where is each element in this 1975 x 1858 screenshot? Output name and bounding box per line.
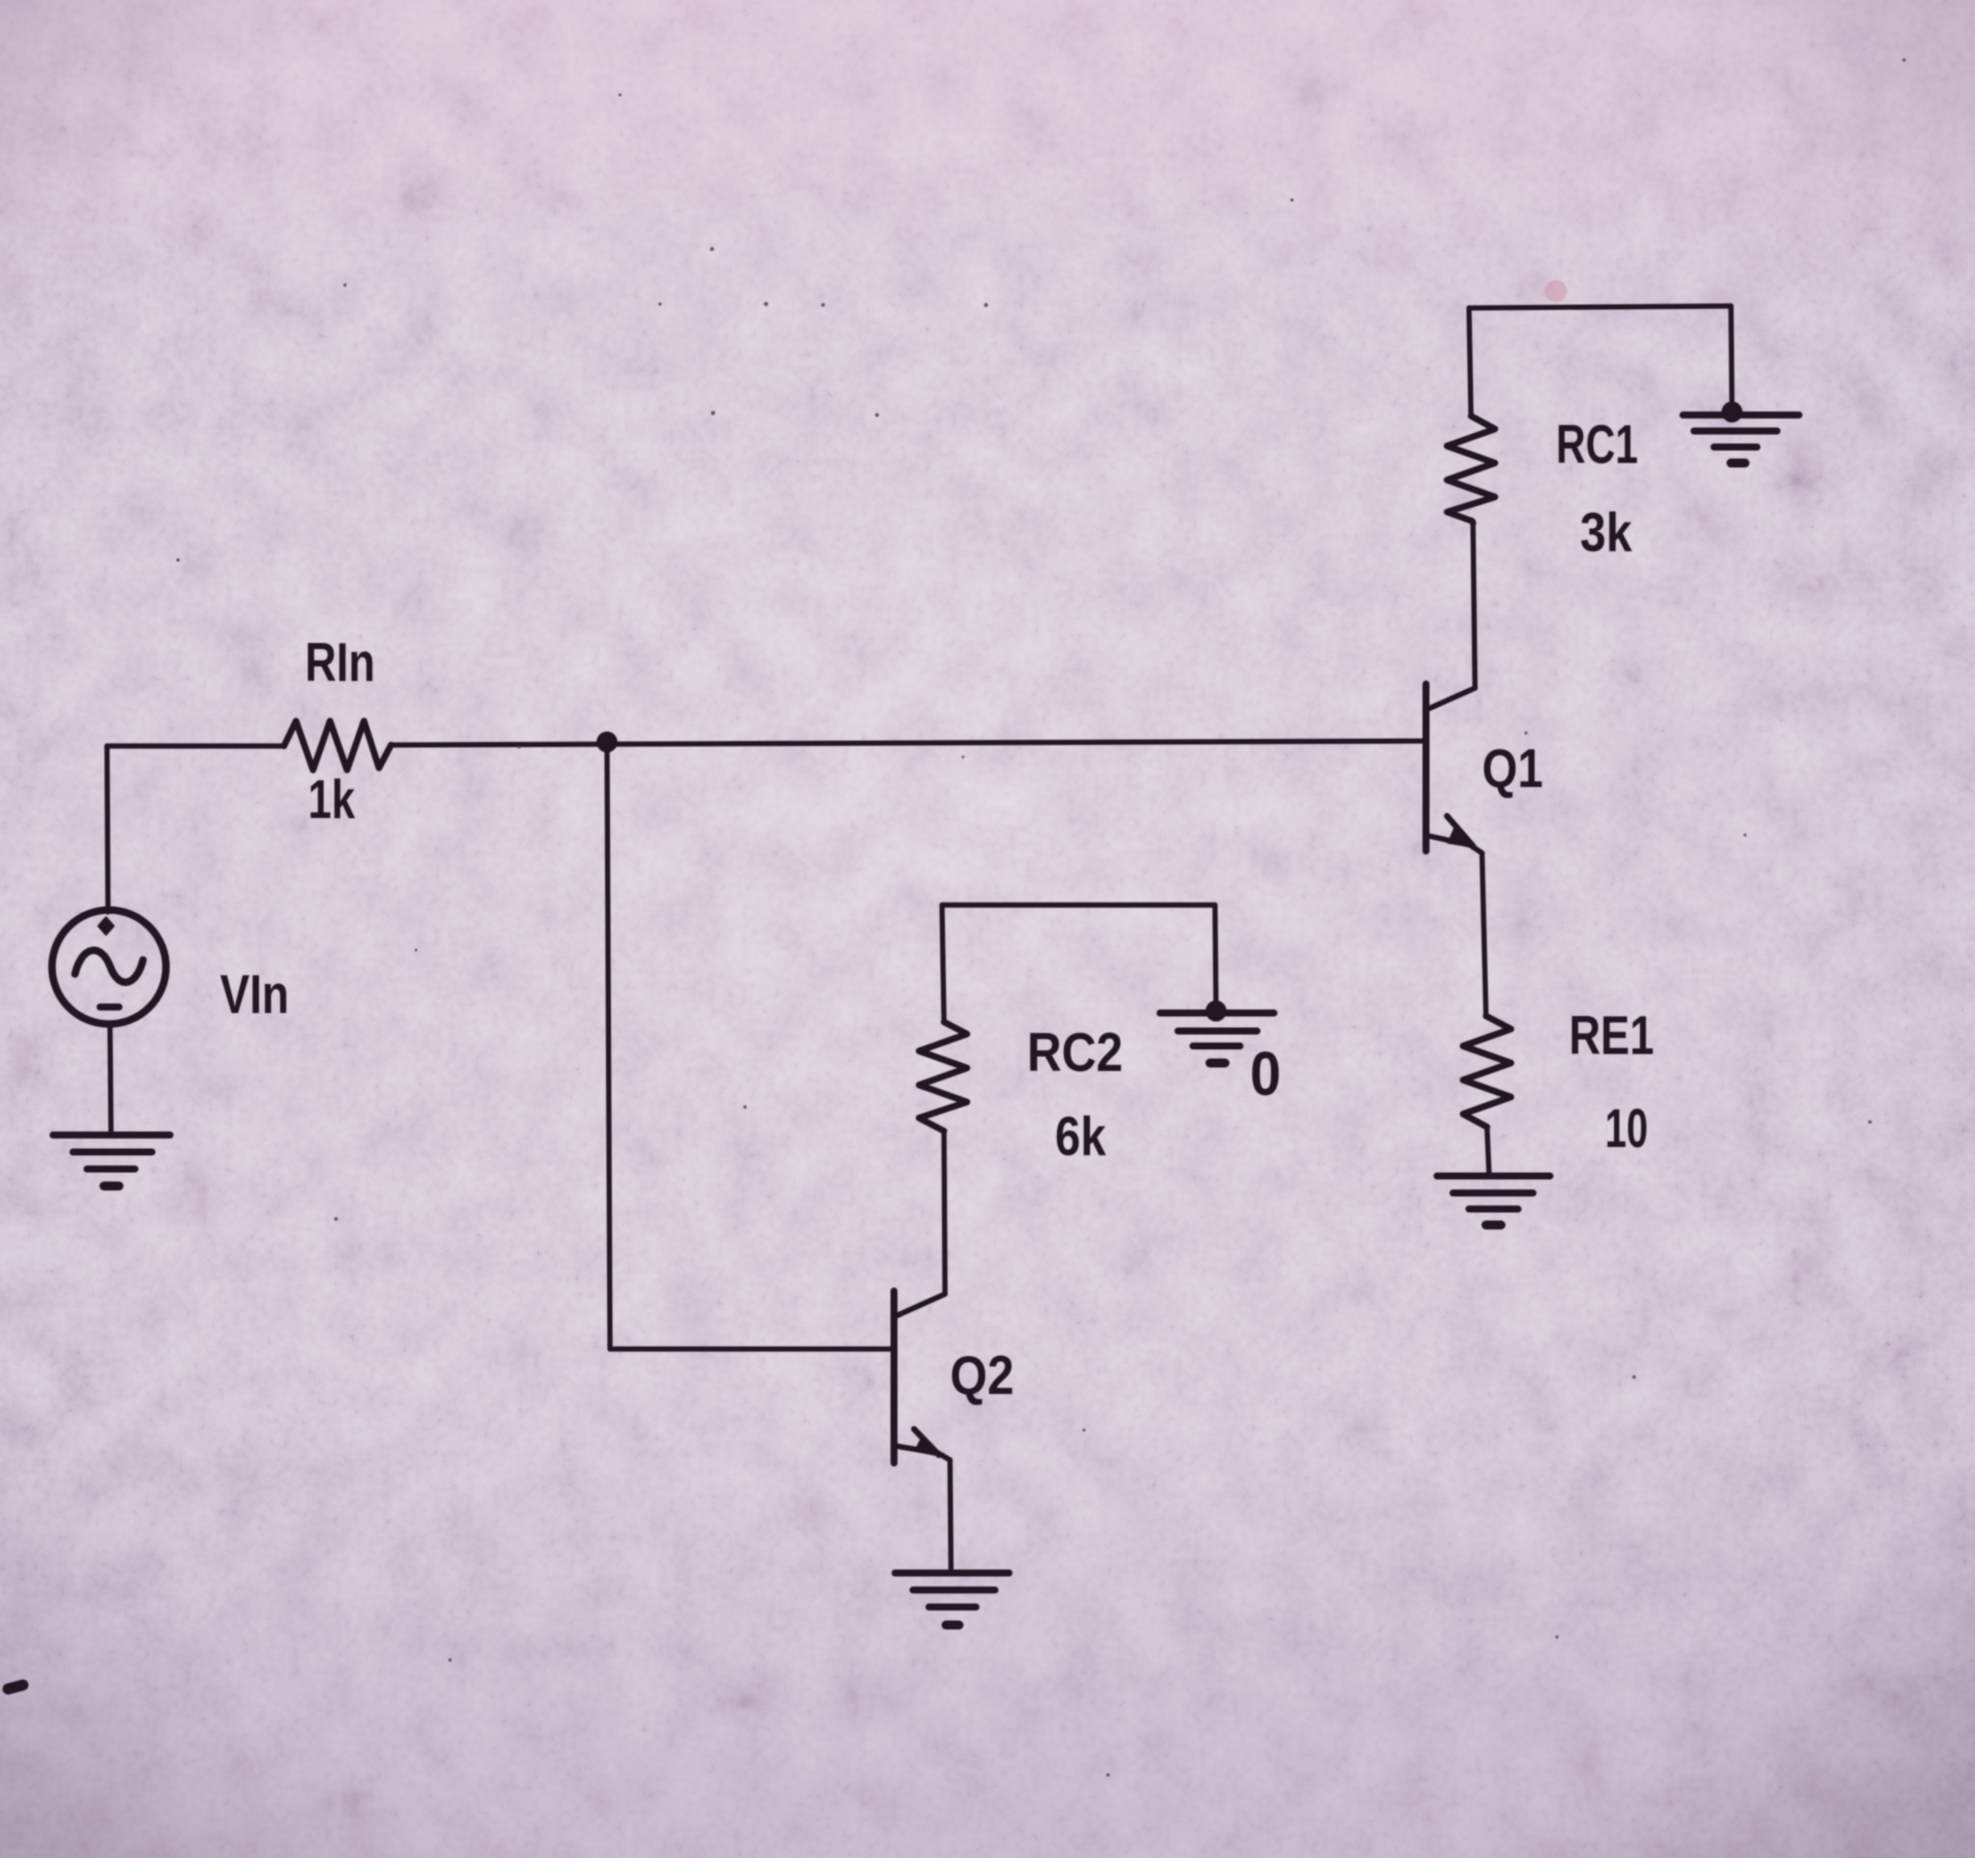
- wire: Vin top to main node: [107, 746, 108, 912]
- source Vin sine: [75, 950, 143, 982]
- resistor RIn: [284, 721, 391, 770]
- wire: main horizontal left segment: [107, 743, 284, 748]
- transistor Q2 emitter arrow: [914, 1429, 939, 1455]
- wire: Q1 emitter vertical: [1482, 853, 1486, 1016]
- resistor RE1: [1463, 1016, 1511, 1127]
- source Vin circle: [52, 910, 166, 1024]
- node dot at ground 0: [1206, 1001, 1227, 1022]
- transistor Q1 emitter arrow: [1447, 816, 1473, 846]
- source Vin minus dash: [100, 1004, 119, 1011]
- transistor Q1 base bar: [1423, 684, 1430, 851]
- transistor Q1 emitter diagonal: [1429, 836, 1482, 853]
- pink smudge: [1545, 280, 1567, 302]
- svg-text:RC2: RC2: [1027, 1021, 1123, 1083]
- wire: Vin bottom: [110, 1024, 111, 1132]
- svg-text:VIn: VIn: [220, 963, 289, 1025]
- ground below Q2: [895, 1573, 1009, 1625]
- ground below RE1: [1437, 1176, 1550, 1225]
- wire: RE1 bottom: [1487, 1127, 1489, 1173]
- wire: Q2 emitter vertical: [950, 1460, 951, 1570]
- wire: top horizontal: [1469, 306, 1731, 308]
- transistor Q1 collector diagonal: [1428, 688, 1475, 709]
- wire: main horizontal to Q1 base: [391, 741, 1424, 745]
- wire: to Q2 base: [610, 1346, 892, 1351]
- node junction dot: [597, 732, 618, 753]
- wire: junction down: [607, 742, 610, 1349]
- wire: RC2 top: [942, 905, 944, 1022]
- source Vin plus diamond: [98, 917, 114, 935]
- wire: RC2 top horizontal: [942, 902, 1215, 907]
- wire: RC1 top: [1469, 308, 1471, 416]
- svg-text:RIn: RIn: [305, 631, 375, 693]
- resistor RC2: [919, 1022, 967, 1131]
- wire: down to ground: [1731, 306, 1732, 411]
- svg-text:10: 10: [1605, 1097, 1648, 1159]
- svg-text:3k: 3k: [1580, 501, 1632, 563]
- transistor Q2 emitter diagonal: [896, 1446, 950, 1460]
- ground 0: [1160, 1013, 1274, 1063]
- ground below Vin: [53, 1135, 170, 1186]
- ground top right: [1683, 415, 1799, 463]
- svg-text:RC1: RC1: [1556, 413, 1638, 475]
- svg-text:1k: 1k: [308, 768, 355, 830]
- node dot at ground: [1722, 402, 1743, 423]
- stray pen mark bottom left: [8, 1685, 23, 1689]
- wire: down to ground 0: [1215, 905, 1216, 1010]
- resistor RC1: [1447, 416, 1495, 523]
- svg-text:RE1: RE1: [1569, 1004, 1654, 1066]
- svg-text:6k: 6k: [1055, 1105, 1106, 1167]
- wire: Q2 collector vertical: [944, 1131, 945, 1294]
- wire: Q1 collector vertical: [1473, 523, 1475, 688]
- svg-text:Q1: Q1: [1482, 737, 1543, 799]
- transistor Q2 base bar: [891, 1291, 898, 1463]
- svg-text:Q2: Q2: [950, 1344, 1014, 1406]
- svg-text:0: 0: [1250, 1040, 1281, 1109]
- transistor Q2 collector diagonal: [896, 1294, 945, 1316]
